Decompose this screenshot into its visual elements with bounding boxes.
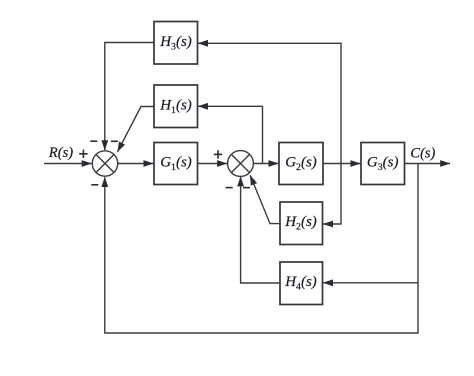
svg-text:G1(s): G1(s) xyxy=(160,155,192,174)
svg-text:H2(s): H2(s) xyxy=(284,214,317,233)
svg-text:H4(s): H4(s) xyxy=(284,274,317,293)
svg-text:G2(s): G2(s) xyxy=(285,155,317,174)
svg-text:G3(s): G3(s) xyxy=(367,155,399,174)
svg-text:R(s): R(s) xyxy=(48,145,74,161)
svg-text:H3(s): H3(s) xyxy=(159,34,192,53)
svg-text:H1(s): H1(s) xyxy=(159,98,192,117)
svg-text:C(s): C(s) xyxy=(410,146,435,162)
